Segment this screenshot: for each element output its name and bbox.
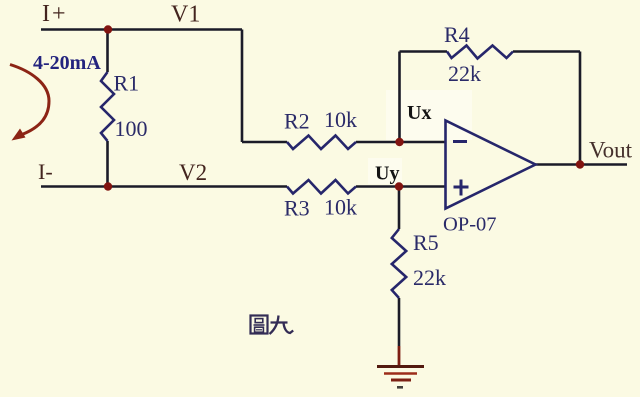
- svg-text:Ux: Ux: [407, 102, 431, 124]
- svg-text:R1: R1: [114, 71, 140, 96]
- svg-text:22k: 22k: [448, 61, 481, 86]
- svg-text:V1: V1: [171, 2, 200, 28]
- svg-text:R5: R5: [413, 230, 439, 255]
- svg-text:V2: V2: [179, 160, 207, 185]
- svg-text:10k: 10k: [324, 195, 357, 220]
- svg-text:Uy: Uy: [375, 163, 399, 185]
- svg-text:R4: R4: [444, 22, 470, 47]
- svg-text:22k: 22k: [413, 265, 446, 290]
- svg-text:10k: 10k: [324, 107, 357, 132]
- svg-text:4-20mA: 4-20mA: [33, 52, 101, 74]
- svg-text:OP-07: OP-07: [443, 214, 497, 236]
- svg-text:R3: R3: [284, 196, 310, 221]
- svg-text:Vout: Vout: [589, 138, 633, 163]
- svg-text:100: 100: [115, 116, 148, 141]
- svg-text:I+: I+: [42, 1, 66, 27]
- svg-text:I-: I-: [38, 159, 53, 184]
- svg-text:R2: R2: [284, 109, 310, 134]
